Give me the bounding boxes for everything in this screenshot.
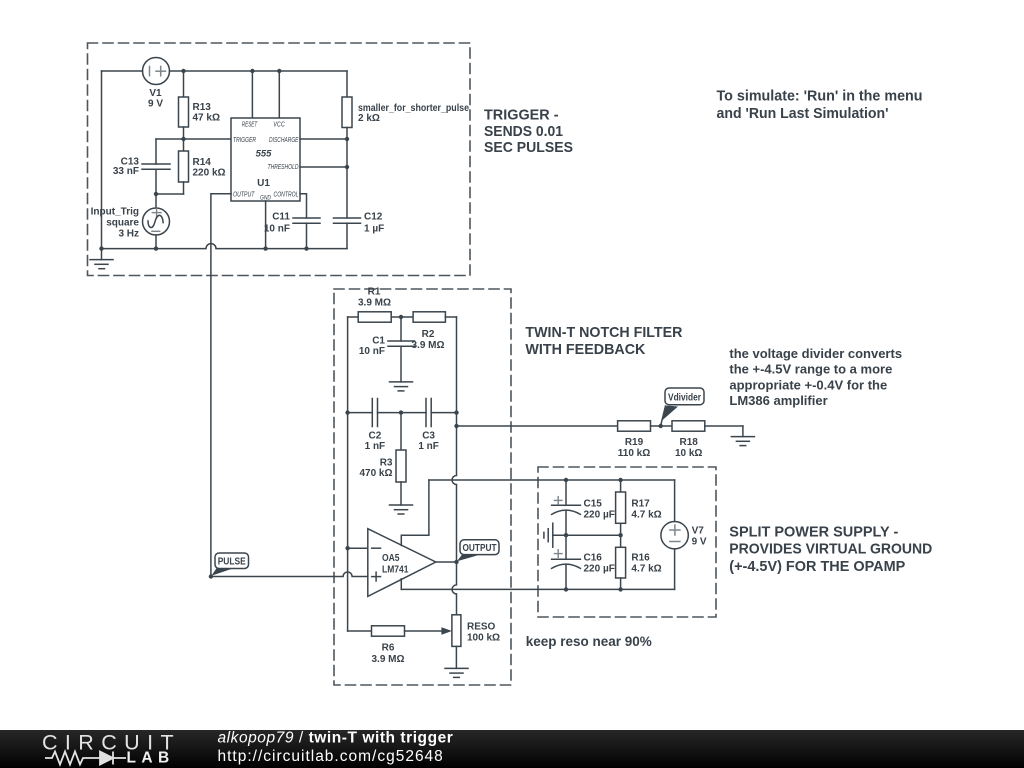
designator U1 — [257, 178, 270, 189]
junction dots bottom rail — [564, 587, 623, 591]
value label R3 470 kΩ — [359, 458, 392, 480]
dashed enclosure: 555 trigger block — [88, 43, 471, 276]
annotation: keep reso note — [526, 633, 653, 649]
wire: TRIGGER net horizontal — [156, 138, 231, 140]
junction dots middle rail — [564, 533, 623, 537]
wire: middle rail left segment — [348, 412, 373, 414]
junction dot Vdivider node — [659, 424, 663, 428]
pin label TRIGGER — [233, 137, 256, 144]
wire: THRESHOLD to right branch — [300, 166, 347, 168]
resistor R14 — [156, 139, 189, 194]
voltage source V7 — [661, 480, 688, 589]
wire: twin-T left vertical — [347, 317, 349, 413]
svg-text:alkopop79 / twin-T with trigge: alkopop79 / twin-T with trigger — [218, 730, 454, 747]
annotation: TWIN-T heading — [525, 324, 682, 358]
wire: left vertical to ground rail — [101, 71, 103, 249]
capacitor C3 — [426, 399, 431, 427]
capacitor C11 — [293, 218, 320, 249]
resistor R17 — [616, 480, 626, 535]
net label PULSE — [218, 556, 246, 568]
value label R1 3.9 MΩ — [358, 287, 391, 309]
value label R16 4.7 kΩ — [631, 553, 661, 575]
wire: VCC pin to top rail — [278, 71, 280, 118]
designator label OA5 LM741 — [382, 553, 409, 576]
value label C1 10 nF — [359, 336, 386, 358]
junction dots top rail — [564, 478, 623, 482]
resistor R6 — [348, 626, 442, 636]
wire: top rail V1 to pull-up resistor — [170, 70, 348, 72]
junction dot R1/R2/C1 — [399, 315, 403, 319]
wire: middle rail right segment — [431, 412, 456, 414]
wire: V1 left lead — [102, 70, 143, 72]
wire: op-amp output — [436, 561, 457, 563]
capacitor C12 — [334, 218, 361, 249]
ground symbol (virtual ground, pointing left) — [544, 523, 553, 547]
resistor R18 — [661, 421, 743, 431]
junction dot C13/R14 — [154, 192, 158, 196]
wire: OUTPUT pin down to PULSE node — [211, 194, 231, 577]
wire: bottom ground rail with hop over output wire — [102, 244, 348, 249]
pin label DISCHARGE — [269, 137, 299, 144]
wire: PULSE to non-inverting input with hop — [211, 572, 368, 577]
value label R2 3.9 MΩ — [411, 329, 444, 351]
value label R6 3.9 MΩ — [371, 643, 404, 666]
source Input_Trig square 3 Hz — [143, 194, 170, 249]
wire: op-amp V- supply pin down — [400, 579, 402, 590]
value label smaller_for_shorter_pulse 2 kΩ — [358, 103, 469, 124]
wire: virtual ground middle rail — [553, 534, 621, 536]
wire: twin-T left vertical down to feedback — [347, 413, 349, 631]
junction dot threshold — [345, 165, 349, 169]
wire: RESET pin to top rail — [251, 71, 253, 118]
value label RESO 100 kΩ — [467, 622, 500, 644]
pin label RESET — [242, 122, 258, 129]
ground symbol under RESO — [445, 668, 468, 677]
op-amp OA5 LM741 — [368, 529, 436, 597]
wire: -4.5V bottom rail with V- pin — [401, 588, 674, 590]
value label R13 47 kΩ — [193, 102, 220, 123]
potentiometer wiper arrow — [441, 627, 452, 634]
ground symbol (trigger block) — [90, 249, 113, 269]
wire: R18 to ground — [742, 426, 744, 437]
ground symbol under C1 — [390, 382, 413, 391]
wire: CONTROL pin to C11 — [300, 194, 307, 218]
value label C12 1 µF — [364, 212, 384, 235]
value label V7 9 V — [692, 526, 707, 548]
potentiometer RESO — [452, 615, 461, 669]
node PULSE — [209, 553, 249, 579]
value label V1 9 V — [148, 88, 163, 110]
pin label CONTROL — [274, 192, 299, 199]
resistor R19 — [618, 421, 661, 431]
annotation: To simulate — [717, 87, 923, 122]
net label OUTPUT — [463, 542, 497, 554]
pin label THRESHOLD — [268, 164, 299, 171]
pin label GND — [260, 195, 271, 202]
ground symbol after R18 — [731, 437, 754, 446]
annotation: voltage divider note — [729, 346, 902, 408]
value label C2 1 nF — [365, 431, 386, 453]
svg-text:LAB: LAB — [127, 750, 175, 767]
junction dot trigger/R13/R14 — [181, 137, 185, 141]
wire: twin-T right vertical — [456, 317, 458, 413]
part number 555 — [256, 149, 273, 160]
value label C15 220 µF — [584, 499, 615, 521]
wire: middle rail center segment — [378, 412, 427, 414]
node OUTPUT — [454, 540, 499, 564]
wire: GND pin to ground rail — [265, 201, 267, 249]
annotation: SPLIT POWER SUPPLY heading — [729, 524, 932, 575]
value label R17 4.7 kΩ — [631, 499, 661, 521]
value label R19 110 kΩ — [618, 437, 651, 459]
value label R14 220 kΩ — [193, 157, 226, 179]
capacitor C13 — [142, 139, 170, 194]
capacitor C16 (polarized) — [552, 535, 581, 589]
wire: right branch vertical — [346, 139, 348, 218]
junction dot output rail tap — [454, 424, 458, 428]
value label C11 10 nF — [264, 212, 291, 235]
junction dots on top rail — [181, 69, 281, 73]
capacitor C1 — [388, 317, 415, 382]
IC U1 555 timer body — [231, 118, 300, 201]
junction dots on ground rail — [99, 246, 308, 250]
resistor R1 — [348, 312, 401, 322]
wire: op-amp V+ supply pin to +rail — [401, 480, 429, 545]
logo resistor-diode glyph — [45, 752, 126, 765]
value label R18 10 kΩ — [675, 437, 702, 459]
annotation: TRIGGER heading — [484, 107, 573, 157]
node Vdivider — [661, 388, 704, 426]
capacitor C2 — [372, 399, 377, 427]
junction dot inverting input — [345, 546, 349, 550]
resistor smaller_for_shorter_pulse — [342, 71, 352, 139]
junction dot discharge — [345, 137, 349, 141]
wire: output rail to R19 — [457, 425, 618, 427]
dashed enclosure: twin-T filter block — [334, 289, 511, 685]
footer bar — [0, 730, 1024, 768]
value label C16 220 µF — [584, 553, 615, 575]
wire: inverting input — [348, 547, 368, 549]
wire: +4.5V top rail — [429, 479, 675, 481]
value label Input_Trig square 3 Hz — [91, 207, 140, 240]
resistor R13 — [179, 71, 189, 139]
voltage source V1 — [143, 58, 170, 85]
value label C13 33 nF — [113, 157, 140, 178]
value label C3 1 nF — [418, 431, 439, 453]
resistor R2 — [401, 312, 457, 322]
capacitor C15 (polarized) — [552, 480, 581, 535]
svg-text:http://circuitlab.com/cg52648: http://circuitlab.com/cg52648 — [218, 748, 444, 765]
resistor R16 — [616, 535, 626, 589]
net label Vdivider — [668, 391, 701, 403]
pin label OUTPUT — [233, 192, 255, 199]
dashed enclosure: split power supply block — [538, 467, 716, 617]
resistor R3 — [396, 413, 406, 505]
wire: DISCHARGE to right branch — [300, 138, 347, 140]
ground symbol under R3 — [390, 505, 413, 514]
junction dots on middle rail — [345, 410, 458, 414]
pin label VCC — [273, 122, 285, 129]
wire: output/RESO vertical with hops — [452, 413, 457, 615]
